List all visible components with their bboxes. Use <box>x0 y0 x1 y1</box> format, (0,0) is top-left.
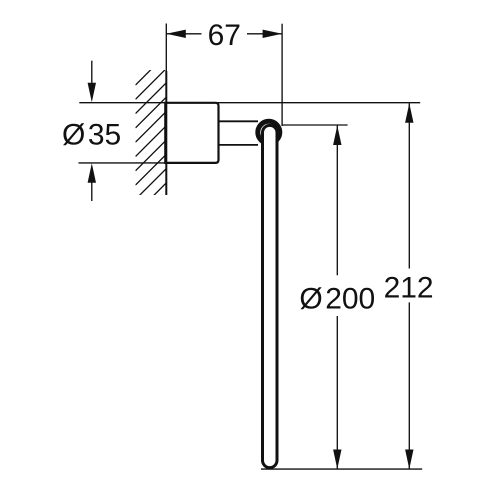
arrow 212 up <box>405 103 413 123</box>
dim O200 line <box>336 126 338 276</box>
dim 212 line <box>408 103 410 268</box>
dim O200 extension <box>282 124 348 126</box>
wire: bottom extension line <box>261 468 422 470</box>
svg-text:212: 212 <box>384 272 434 305</box>
mount plate <box>165 103 218 163</box>
arrow O200 down <box>333 450 341 470</box>
collar <box>258 121 280 143</box>
arrow 67 right <box>263 30 283 38</box>
svg-text:Ø35: Ø35 <box>62 119 121 152</box>
wire: top extension line (mount top / 212 datum) <box>79 102 420 104</box>
arrow 67 left <box>166 30 186 38</box>
dim O35 top arrow <box>91 61 93 84</box>
ring tube <box>263 125 278 467</box>
dim 67 extension right <box>281 24 283 126</box>
dim 67 extension left <box>165 24 167 72</box>
arrow O200 up <box>333 126 341 146</box>
dim O35 bottom arrow <box>91 182 93 201</box>
arm <box>218 120 259 122</box>
wire: bottom extension line of O35 <box>79 162 167 164</box>
svg-text:67: 67 <box>208 19 241 52</box>
dim 67 line <box>166 33 201 35</box>
arrow 212 down <box>405 450 413 470</box>
wall line <box>165 71 167 195</box>
wall hatching <box>136 51 171 214</box>
svg-text:Ø200: Ø200 <box>299 283 375 316</box>
